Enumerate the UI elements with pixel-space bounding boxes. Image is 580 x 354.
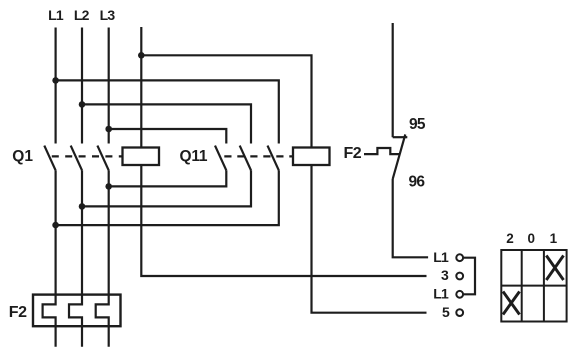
svg-text:1: 1: [550, 231, 558, 246]
wire Q11 pole1 output to L3 node: [109, 170, 227, 186]
contactor Q1 pole2 blade: [71, 146, 82, 171]
svg-text:L2: L2: [74, 7, 90, 23]
terminal circle L1 lower: [456, 291, 463, 298]
contactor Q11 pole3 blade: [268, 146, 279, 171]
wire Q1 pole3 output through overload element: [96, 170, 109, 346]
junction node L2 top: [79, 101, 86, 108]
junction node L2 output: [79, 203, 86, 210]
wire branch L3 to Q11 pole1: [109, 129, 227, 144]
wire coil supply vertical: [140, 27, 142, 148]
wire L3 phase vertical: [108, 28, 110, 144]
terminal circle L1 top: [456, 254, 463, 261]
svg-text:Q1: Q1: [12, 148, 33, 165]
contactor Q11 pole1 blade: [215, 146, 226, 171]
svg-text:L3: L3: [100, 7, 116, 23]
link between terminal L1 and L1: [463, 258, 475, 295]
svg-text:F2: F2: [344, 145, 362, 162]
wire 96 to terminal L1: [393, 179, 428, 257]
junction node L3 output: [105, 183, 112, 190]
junction node L1 output: [52, 222, 59, 229]
wire Q11 pole3 output to L1 node: [56, 170, 279, 225]
wire L1 phase vertical: [54, 28, 56, 144]
X mark position 1: [546, 256, 563, 281]
wire Q1 pole1 output through overload element: [43, 170, 56, 346]
F2 thermal trip actuator: [364, 148, 400, 154]
wire branch to Q11 coil: [141, 55, 311, 147]
svg-text:L1: L1: [48, 7, 64, 23]
junction node L3 top: [105, 126, 112, 133]
wire Q11 pole2 output to L2 node: [82, 170, 251, 206]
junction node L1 top: [52, 77, 59, 84]
svg-text:L1: L1: [433, 286, 449, 302]
wire branch L2 to Q11 pole2: [82, 104, 251, 143]
svg-text:95: 95: [409, 116, 426, 133]
svg-text:96: 96: [409, 174, 426, 191]
contactor Q1 pole3 blade: [97, 146, 108, 171]
wire L2 phase vertical: [81, 28, 83, 144]
F2 NC contact blade: [393, 134, 406, 179]
terminal circle 3: [456, 273, 463, 280]
F2 contact 95 terminal tick: [393, 136, 408, 138]
junction node coil supply: [138, 52, 145, 59]
svg-text:2: 2: [506, 231, 514, 246]
Q1 mechanical link (dashed): [52, 155, 123, 157]
svg-text:F2: F2: [9, 304, 27, 321]
svg-text:0: 0: [528, 231, 536, 246]
contactor Q1 pole1 blade: [44, 146, 55, 171]
wire to F2 contact 95: [392, 23, 394, 137]
contactor Q11 pole2 blade: [240, 146, 251, 171]
wire Q11 coil to terminal 5: [312, 165, 427, 313]
wire Q1 pole2 output through overload element: [69, 170, 82, 346]
wire branch L1 to Q11 pole3: [56, 80, 279, 143]
svg-text:3: 3: [441, 267, 449, 283]
switch table frame: [501, 250, 566, 322]
coil Q1: [123, 148, 160, 166]
wire Q1 coil to terminal 3: [141, 165, 426, 276]
X mark position 2: [503, 292, 520, 315]
svg-text:5: 5: [442, 304, 450, 320]
overload relay F2 box: [33, 295, 121, 327]
svg-text:Q11: Q11: [180, 148, 208, 165]
terminal circle 5: [456, 309, 463, 316]
svg-text:L1: L1: [433, 249, 449, 265]
Q11 mechanical link (dashed): [224, 155, 293, 157]
coil Q11: [293, 148, 330, 166]
